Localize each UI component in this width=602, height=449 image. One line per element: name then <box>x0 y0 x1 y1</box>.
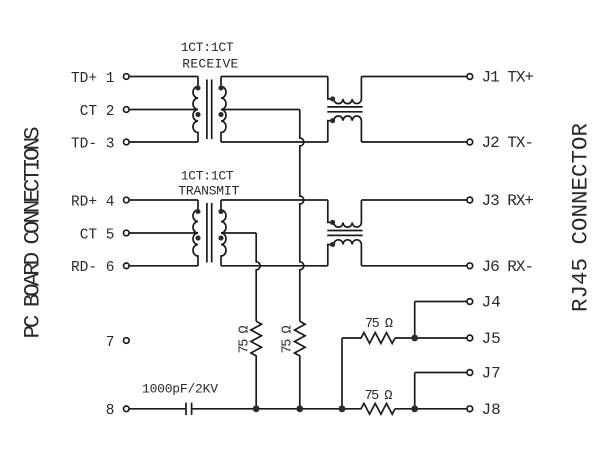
svg-text:J2 TX-: J2 TX- <box>482 134 535 152</box>
svg-text:J7: J7 <box>482 365 501 383</box>
svg-text:75 Ω: 75 Ω <box>365 389 393 404</box>
svg-text:PC BOARD CONNECTIONS: PC BOARD CONNECTIONS <box>20 127 46 339</box>
svg-text:RJ45 CONNECTOR: RJ45 CONNECTOR <box>568 123 594 312</box>
svg-text:75 Ω: 75 Ω <box>280 325 295 353</box>
svg-text:TD+ 1: TD+ 1 <box>71 71 115 87</box>
svg-text:75 Ω: 75 Ω <box>365 317 393 332</box>
svg-text:CT 2: CT 2 <box>80 104 115 120</box>
svg-text:7: 7 <box>106 335 115 351</box>
svg-text:TRANSMIT: TRANSMIT <box>178 184 239 199</box>
svg-text:J1 TX+: J1 TX+ <box>482 69 535 87</box>
svg-text:8: 8 <box>106 403 115 419</box>
svg-text:RD- 6: RD- 6 <box>71 260 115 276</box>
svg-text:1CT:1CT: 1CT:1CT <box>181 40 234 55</box>
svg-text:RD+ 4: RD+ 4 <box>71 194 115 210</box>
svg-text:J4: J4 <box>482 294 501 312</box>
svg-text:J3 RX+: J3 RX+ <box>482 192 535 210</box>
svg-text:J5: J5 <box>482 330 501 348</box>
svg-text:1CT:1CT: 1CT:1CT <box>181 169 234 184</box>
svg-text:J8: J8 <box>482 401 501 419</box>
svg-text:J6 RX-: J6 RX- <box>482 258 535 276</box>
svg-text:RECEIVE: RECEIVE <box>182 57 238 72</box>
svg-text:1000pF/2KV: 1000pF/2KV <box>142 382 218 397</box>
svg-text:CT 5: CT 5 <box>80 227 115 243</box>
svg-text:75 Ω: 75 Ω <box>238 325 253 353</box>
svg-text:TD- 3: TD- 3 <box>71 136 115 152</box>
